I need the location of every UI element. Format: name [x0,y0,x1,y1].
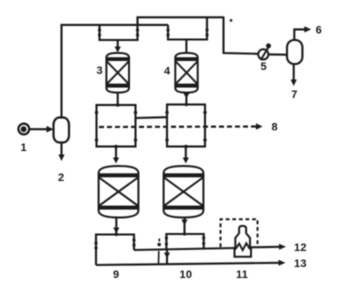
wire: column E bottoms arrow into box 9 [115,218,117,235]
manifold box above reactor 3 [100,18,138,41]
column F (right large column) [164,166,204,218]
box 9 [96,235,134,266]
dashed line to stream 8 [99,125,256,128]
svg-text:12: 12 [294,242,307,254]
wire: reactor 3 outlet down to exchanger box C [117,93,119,105]
wire: bottom product line to stream 13 arrow [96,263,279,265]
wire: right downcomer to cooler 5 [224,17,259,54]
wire: reactor 4 outlet arrow down to exchanger box D [185,93,187,105]
wire: top header (upper) y=17.3 to right downcomer [137,16,224,18]
wire: arrow into reactor 3 [117,40,119,47]
wire: connector between exchanger boxes [136,116,168,119]
wire: arrow box D to column F [185,147,187,159]
separator vessel G (top right) [287,40,302,64]
wire: manifold B down to reactor 4 [185,40,187,54]
wire: cooler 5 to separator G [268,53,287,55]
stray tick between boxes 9 and 10 [158,239,161,265]
svg-text:7: 7 [291,89,297,101]
svg-text:2: 2 [58,172,64,184]
box 10 [166,234,203,250]
reactor 3 vessel [106,53,129,93]
wire: channel line from box 9 to heater 11 [134,248,236,250]
exchanger box D (second row right) [167,105,205,147]
wire: step vertical at x=137.5 joining upper header [136,17,138,26]
svg-text:3: 3 [97,65,103,77]
exchanger box C (second row left) [97,105,136,147]
svg-text:5: 5 [261,61,267,73]
reactor 4 vessel [175,53,197,93]
wire: arrow box C to column E [115,147,117,159]
manifold box above reactor 4 [168,18,207,40]
wire: stream 6 arrow from separator top [294,29,305,40]
junction dots manifold B [166,28,208,36]
svg-text:13: 13 [294,258,307,270]
scan speck [230,19,233,22]
wire: drum bottoms arrow (stream 2) [60,143,62,156]
dashed enclosure around heater 11 [221,219,258,247]
column E (left large column) [99,166,139,218]
svg-text:11: 11 [236,269,248,281]
svg-text:10: 10 [180,269,193,281]
wire: column F bottoms arrow into box 10 [183,218,185,235]
wire: feed arrow 1 into drum [29,128,47,130]
wire: stream 12 from heater to arrow [251,246,280,249]
feed inlet symbol 1 (circle with dot) [18,124,29,135]
svg-text:4: 4 [164,66,171,78]
cooler 5 (circle with diagonal arrow) [258,43,271,60]
wire: arrow from box 10 down to bottom line [166,250,168,265]
wire: left riser from drum 2 up to top header [60,25,62,118]
heater 11 (bottle with zigzag) [235,226,252,257]
svg-text:6: 6 [316,25,322,37]
wire: top header (lower) y=24.5 from riser to manifold B [61,24,169,26]
svg-text:8: 8 [272,122,278,134]
svg-text:9: 9 [113,269,119,281]
drum vessel (left, stream 2) [54,118,70,143]
junction dots manifold A [98,28,139,36]
svg-text:1: 1 [21,142,27,154]
wire: stream 7 arrow from separator bottom [293,64,295,81]
